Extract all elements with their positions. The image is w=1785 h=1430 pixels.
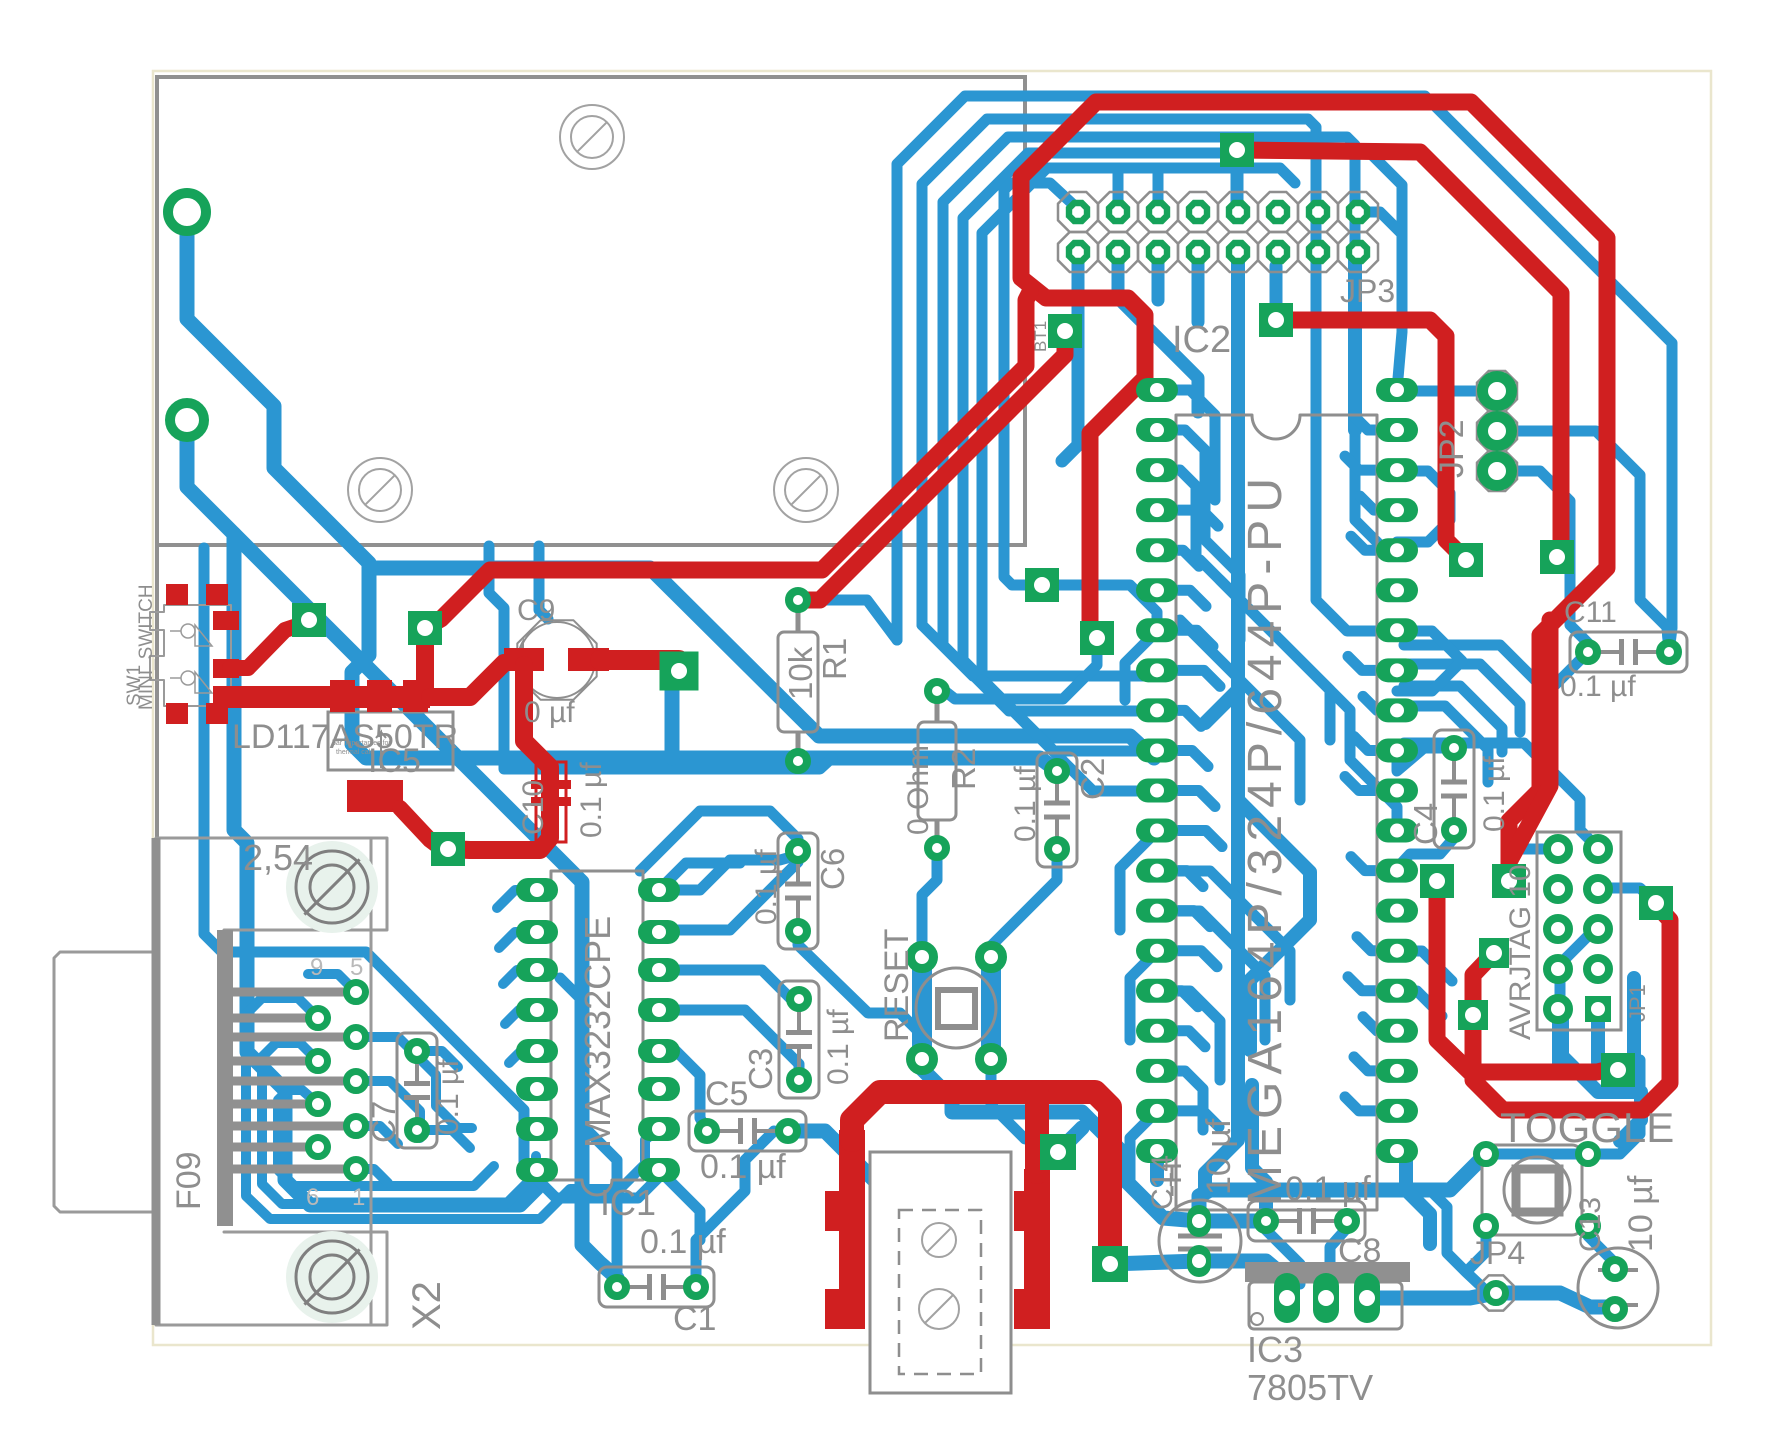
wire diag IC1 top: [640, 811, 798, 871]
wire IC2 left stub 18: [1157, 1111, 1219, 1127]
wire IC1-C6 diag1: [659, 863, 740, 890]
wire IC2-chevron2: [1397, 471, 1450, 542]
ic IC3 body: [1249, 1282, 1402, 1329]
capacitor C13 pads: [1606, 1260, 1624, 1278]
ic IC2 body: [1176, 415, 1377, 1210]
wire pad C stem: [665, 683, 680, 758]
wire IC2 int diag5: [1157, 911, 1265, 1040]
svg-text:1: 1: [352, 1184, 365, 1211]
red SW1 pad tl: [166, 584, 188, 605]
wire C11 left down: [1546, 652, 1588, 730]
wire via-585 link: [1042, 585, 1157, 631]
switch SW1 sym1: [170, 624, 212, 646]
wire IC1 pin5 stub: [509, 1051, 537, 1063]
wire JTAG row1 link: [1520, 844, 1558, 855]
red C10 bar bottom: [531, 797, 571, 806]
wire IC2 right stub 2: [1345, 456, 1397, 470]
wire bus L4: [963, 153, 1402, 660]
wire JP4 C13: [1496, 1293, 1615, 1307]
red power left tab2: [825, 1289, 855, 1329]
svg-text:0.1 µf: 0.1 µf: [432, 1059, 465, 1135]
capacitor C3 pads: [790, 990, 808, 1008]
wire horiz fork down: [1430, 1190, 1483, 1288]
wire C5 right link: [788, 1131, 895, 1232]
wire IC3 pad3 JP4: [1367, 1293, 1496, 1298]
svg-text:MAX3232CPE: MAX3232CPE: [577, 916, 618, 1148]
header JP4 outline: [1478, 1275, 1513, 1310]
wire DB9 loop A: [204, 548, 659, 1198]
svg-text:0 µf: 0 µf: [524, 696, 575, 729]
svg-text:C11: C11: [1564, 596, 1617, 629]
red trace BT1 to R1: [796, 331, 1065, 600]
red C9 pad right: [568, 648, 609, 671]
wire bus L5 tail: [982, 680, 1157, 791]
wire IC2 right stub 12: [1351, 857, 1397, 871]
red IC5 pin3: [403, 680, 428, 712]
wire TOGGLE br pad down: [1588, 1236, 1617, 1267]
wire IC2 int 3: [1157, 470, 1196, 560]
wire V539 stub: [539, 546, 548, 619]
red trace SW1 bar: [213, 686, 430, 708]
wire IC2 int 6: [1157, 991, 1220, 1080]
via pad C: [660, 652, 699, 691]
wire IC2 int diag3: [1180, 620, 1300, 800]
ic IC1 body: [551, 871, 643, 1195]
via pad P-top: [1220, 133, 1254, 167]
via power 2: [1092, 1246, 1128, 1282]
wire JP3 p2 stub: [1270, 266, 1283, 320]
svg-text:thermal calc: thermal calc: [336, 749, 374, 756]
wire JTAG diag: [1560, 929, 1595, 1000]
wire IC2 right stub 17: [1354, 1057, 1397, 1071]
red hook inner: [1437, 881, 1614, 1072]
svg-text:C10: C10: [517, 780, 550, 835]
svg-text:bar importantes for: bar importantes for: [332, 740, 391, 747]
via pad 1042-585: [1025, 568, 1059, 602]
svg-text:10 µf: 10 µf: [1200, 1118, 1238, 1195]
connector X2 ear bottom: [224, 1232, 387, 1325]
red trace branch to SW1: [425, 292, 1030, 628]
wire IC2 right stub 16: [1363, 1017, 1397, 1031]
wire DB9 pad1 tap: [308, 974, 356, 992]
connector X1 outline: [870, 1152, 1011, 1393]
wire C8 left vert: [1252, 1085, 1266, 1221]
svg-text:C1: C1: [673, 1300, 716, 1338]
via pad P2: [1259, 303, 1293, 337]
svg-text:10 µf: 10 µf: [1622, 1175, 1660, 1252]
svg-text:IC2: IC2: [1172, 319, 1231, 361]
wire JTAG loop outer: [1562, 1013, 1641, 1141]
wire bus L5: [982, 168, 1295, 680]
svg-text:0.1 µf: 0.1 µf: [700, 1148, 786, 1186]
wire bus right hB: [1404, 664, 1520, 732]
capacitor C1 pads: [608, 1278, 626, 1296]
connector X2 pads: [347, 983, 366, 1002]
wire RESET right pads: [981, 957, 1001, 1059]
wire C4 bottom link: [1397, 838, 1454, 868]
capacitor C4 outline: [1434, 730, 1474, 848]
wire IC2 left stub 5: [1157, 590, 1206, 606]
ic IC2 pads: [1136, 378, 1178, 402]
svg-text:JP2: JP2: [1433, 419, 1471, 478]
wire bus L1: [897, 96, 1672, 652]
header JP4 pad: [1487, 1284, 1506, 1303]
wire IC2 int diag1: [1200, 560, 1330, 740]
red SW1 pad bl: [166, 703, 188, 724]
wire bus right hC: [1404, 686, 1502, 752]
wire IC2 left stub 16: [1157, 1031, 1205, 1047]
wire bus L4 tail: [963, 660, 1157, 751]
wire IC2 left stub 6: [1157, 630, 1213, 646]
resistor R1 pads: [789, 591, 807, 609]
svg-text:C4: C4: [1407, 803, 1444, 845]
via V1: [168, 193, 206, 231]
wire RESET left pads: [912, 957, 932, 1059]
header AVRJTAG pads: [1547, 838, 1569, 860]
board frame (dimension, pale yellow): [153, 71, 1711, 1345]
svg-text:9: 9: [310, 954, 323, 981]
wire JP3 row2 col7: [1348, 252, 1362, 430]
svg-text:7805TV: 7805TV: [1247, 1367, 1373, 1408]
switch SW1 outline: [150, 605, 231, 706]
wire via-638 link: [937, 650, 1097, 699]
wire IC2 right stub 4: [1351, 536, 1397, 550]
svg-text:0.1 µf: 0.1 µf: [640, 1223, 726, 1261]
wire IC2 left stub 951: [1130, 951, 1157, 1040]
wire TOGGLE bl pad down: [1470, 1236, 1486, 1268]
wire C7 bottom tap: [417, 1130, 470, 1148]
wire IC2-chevron1: [1397, 631, 1462, 691]
via pad 1097-638: [1080, 621, 1114, 655]
label IC5 fineprint: [332, 740, 391, 756]
via pad J2: [1492, 864, 1526, 898]
svg-text:C14: C14: [1146, 1155, 1179, 1210]
wire IC2 left stub 8: [1157, 710, 1201, 726]
red power right bar: [1024, 1169, 1050, 1329]
capacitor C1 outline: [599, 1267, 714, 1307]
wire IC1-C3 top: [659, 970, 799, 999]
wire IC1-C5 left: [659, 1051, 707, 1131]
wire DB9 pad3 stub: [356, 1037, 472, 1128]
screw hole bottom: [286, 1231, 378, 1323]
wire JP3 row2 col5 wide: [1205, 252, 1238, 723]
wire bus L6 tail: [1004, 560, 1038, 585]
red trace outer loop with S: [1021, 102, 1607, 881]
svg-text:R2: R2: [945, 748, 982, 790]
connector X1 hole2: [938, 1308, 940, 1310]
wire RESET down link: [991, 1069, 1045, 1139]
svg-text:0 Ohm: 0 Ohm: [902, 745, 935, 835]
button TOGGLE outline: [1482, 1145, 1582, 1235]
wire IC1 pin4 stub: [505, 1010, 537, 1024]
wire IC1 pin2 stub: [499, 932, 537, 948]
wire C2 bottom to RESET: [991, 855, 1057, 957]
wire bus L2: [922, 119, 1390, 631]
wire DB9 pad5 stub: [356, 1081, 420, 1138]
capacitor C11 outline: [1570, 632, 1687, 672]
wire IC1 right pad8 down: [659, 1170, 700, 1240]
connector X2 pin bars: [217, 930, 233, 1226]
wire IC1 pin1 stub: [497, 890, 537, 908]
capacitor C13 outline: [1578, 1248, 1658, 1328]
wire JP3 p1-p2 stub: [1231, 165, 1244, 212]
red power right tab2: [1014, 1289, 1042, 1329]
wire IC2 left stub 10: [1157, 791, 1215, 807]
wire IC1 pin16 up: [659, 855, 798, 890]
wire IC2 int 2: [1157, 430, 1240, 640]
red hook outer: [1473, 905, 1670, 1110]
svg-text:JP1: JP1: [1625, 984, 1650, 1022]
svg-text:C3: C3: [742, 1048, 779, 1090]
wire JP3 row2 col1 stub: [1062, 252, 1078, 461]
wire C6 top to IC1: [659, 855, 798, 932]
red trace inner loop 1 (JP3 pad to E1): [1237, 150, 1561, 557]
wire IC2 right stub 14: [1357, 937, 1397, 951]
capacitor C6 pads: [789, 842, 807, 860]
mount hole H3: [774, 458, 838, 522]
via pad D: [431, 832, 465, 866]
wire IC2 stub 1151: [1150, 1151, 1164, 1180]
red trace IC5 tab link: [400, 808, 442, 849]
via pad J5: [1601, 1053, 1635, 1087]
wire C11 right up: [1667, 627, 1669, 652]
wire DB9 pad7 stub: [356, 1126, 398, 1144]
red SW1 pad m2: [213, 659, 239, 678]
ic IC3 pads: [1274, 1273, 1300, 1323]
wire JTAG row2 link: [1598, 888, 1656, 903]
wire C1 left up: [560, 978, 617, 1275]
resistor R2 pads: [928, 682, 946, 700]
wire IC2 int X: [1238, 800, 1310, 1050]
wire IC2 left stub 831: [1120, 831, 1157, 930]
header AVRJTAG outline: [1537, 832, 1621, 1030]
via pad E2: [1449, 543, 1483, 577]
header JP3 outline: [1058, 192, 1098, 232]
button RESET pads: [911, 946, 934, 969]
capacitor C11 pads: [1579, 643, 1597, 661]
wire IC2 left stub 4: [1157, 550, 1199, 566]
wire bus right hA: [1404, 645, 1540, 702]
wire IC2 left stub 14: [1157, 951, 1217, 967]
wire power via stub: [1058, 1128, 1082, 1152]
red trace SW1 to pad A: [230, 622, 309, 668]
wire IC2 left stub 9: [1157, 750, 1208, 766]
wire IC2 left stub 13: [1157, 911, 1210, 927]
red power loop: [852, 1092, 1110, 1264]
svg-text:RESET: RESET: [878, 929, 916, 1042]
board outline left edge: [155, 546, 159, 1325]
wire IC1-C3 bottom: [659, 1010, 799, 1080]
wire C6 bottom link: [798, 938, 922, 1059]
capacitor C14 outline: [1159, 1200, 1241, 1282]
red power left bar: [839, 1130, 865, 1329]
wire JP3 row1 col3 upstub: [1153, 172, 1164, 212]
via pad J3: [1479, 938, 1509, 968]
button TOGGLE pads: [1477, 1145, 1496, 1164]
regulator IC5 body: [328, 712, 453, 770]
svg-text:2,54: 2,54: [243, 837, 313, 878]
switch SW1 sym2: [170, 671, 212, 693]
red C10 bar top: [531, 780, 571, 789]
red IC5 pin1: [330, 680, 355, 712]
wire C4 top link: [1397, 748, 1454, 771]
red SW1 pad m1: [213, 611, 239, 630]
connector X1 dashed: [899, 1210, 981, 1374]
wire JP3 col8 stub: [1358, 212, 1402, 234]
mount hole H2: [348, 458, 412, 522]
svg-text:R1: R1: [816, 638, 853, 680]
capacitor C7 outline: [397, 1033, 437, 1148]
wire IC2 int 1: [1157, 390, 1215, 500]
wire bus right hD: [1404, 706, 1488, 782]
svg-text:C7: C7: [365, 1101, 402, 1143]
button RESET outline: [916, 968, 996, 1048]
via pad J6: [1639, 886, 1673, 920]
svg-text:IC3: IC3: [1247, 1329, 1303, 1370]
wire DB9 loop C: [262, 1043, 536, 1204]
svg-text:0.1 µf: 0.1 µf: [1560, 670, 1636, 703]
svg-text:0.1 µf: 0.1 µf: [822, 1009, 855, 1085]
via BT1 pad: [1048, 314, 1082, 348]
svg-text:X2: X2: [405, 1281, 449, 1330]
capacitor C7 pads: [408, 1042, 426, 1060]
red SW1 pad tr: [206, 584, 228, 605]
wire IC2 right stub 7: [1348, 656, 1397, 670]
board outline top module (gray rect): [157, 77, 1025, 545]
via pad B: [408, 611, 442, 645]
ic IC3 bar: [1245, 1262, 1410, 1282]
svg-text:BT1: BT1: [1031, 321, 1050, 352]
wire via1 chain: [187, 212, 1056, 770]
wire JP3 row2 col3 stub: [1152, 252, 1165, 300]
header JP3 pads: [1066, 200, 1090, 224]
wire AVRJTAG feed: [1404, 743, 1598, 848]
wire via2 branch DB9: [234, 534, 537, 1205]
screw hole top: [286, 841, 378, 933]
wire JP2 pad1 link: [1397, 386, 1497, 397]
wire IC2 right stub 3: [1360, 496, 1397, 510]
svg-text:0.1 µf: 0.1 µf: [575, 762, 608, 838]
wire via2 chain: [187, 420, 617, 1287]
resistor R1 outline: [778, 632, 818, 732]
svg-text:0.1 µf: 0.1 µf: [1478, 756, 1511, 832]
red IC5 tab: [347, 780, 403, 812]
red trace padB down: [416, 628, 434, 697]
red trace C9 left down: [448, 665, 550, 850]
red hook pad link: [1473, 953, 1494, 1015]
svg-text:C9: C9: [517, 594, 555, 627]
wire bus L2 tail: [922, 625, 1157, 676]
ic IC1 pads: [516, 878, 558, 902]
wire IC2 right stub 1: [1354, 416, 1397, 430]
header JP2 outline: [1477, 371, 1517, 411]
red trace C9 to pad C: [600, 660, 679, 671]
wire IC2 left stub 15: [1157, 991, 1198, 1007]
wire IC2 left stub 631: [1125, 631, 1157, 700]
svg-text:F09: F09: [170, 1151, 208, 1210]
connector X2 ear top: [224, 838, 387, 930]
wire IC2 left stub 7: [1157, 670, 1220, 686]
capacitor C14 pads: [1187, 1205, 1211, 1237]
capacitor C8 pads: [1257, 1212, 1275, 1230]
wire C8 diag IC3: [1266, 1230, 1300, 1284]
wire IC2 int diag4: [1157, 871, 1290, 1000]
svg-text:0.1 µf: 0.1 µf: [1285, 1170, 1371, 1208]
wire IC1 pin3 stub: [503, 970, 537, 984]
red C9 pad left: [504, 648, 544, 671]
svg-text:TOGGLE: TOGGLE: [1500, 1104, 1674, 1151]
wire IC2 left stub 1111: [1130, 1111, 1157, 1180]
svg-text:JP3: JP3: [1340, 273, 1395, 309]
red power right tab1: [1014, 1191, 1042, 1231]
wire IC2 right stub 8: [1363, 696, 1397, 710]
red trace IC5 bar to C9: [430, 663, 504, 697]
wire JTAG col1 stub: [1552, 1013, 1564, 1068]
wire IC2 right stub 9: [1354, 736, 1397, 750]
red trace inner loop 2 (JP3 pad2 to E2): [1276, 320, 1466, 560]
svg-text:6: 6: [306, 1184, 319, 1211]
wire JP2 pad3 link: [1497, 471, 1588, 652]
svg-text:0.1 µf: 0.1 µf: [1009, 766, 1042, 842]
wire IC2 left stub 3: [1157, 510, 1218, 526]
wire DB9 pad9 stub: [356, 1169, 388, 1183]
svg-text:AVRJTAG 10: AVRJTAG 10: [1504, 864, 1537, 1040]
connector X2 outline: [156, 838, 371, 1325]
capacitor C8 outline: [1248, 1201, 1365, 1241]
svg-text:C8: C8: [1338, 1232, 1381, 1270]
via pad E1: [1540, 540, 1574, 574]
capacitor C5 outline: [689, 1111, 806, 1151]
red SW1 pad br: [206, 703, 228, 724]
red IC5 pin2: [367, 680, 392, 712]
svg-text:0.1 µf: 0.1 µf: [750, 849, 783, 925]
wire TOGGLE row link: [1486, 1149, 1588, 1160]
red C10 outline: [536, 762, 566, 842]
wire JP3 row2 col4 stub: [1192, 252, 1205, 322]
wire IC2 right stub 15: [1348, 977, 1397, 991]
regulator IC5 inner: [376, 732, 386, 768]
via pad A: [292, 603, 326, 637]
capacitor C4 pads: [1445, 739, 1463, 757]
wire DB9 loop D: [278, 1090, 494, 1186]
wire bus L3: [943, 137, 1397, 645]
wire IC2 int diag2: [1220, 580, 1397, 831]
header JP2 pads: [1483, 377, 1512, 406]
wire C7 top tap: [417, 1051, 458, 1067]
via pad J1: [1420, 864, 1454, 898]
connector X1 hole1: [938, 1239, 940, 1241]
wire IC2 int 7: [1157, 1071, 1203, 1130]
wire bus L6 inner: [1004, 183, 1078, 560]
wire V489 chain: [489, 546, 832, 769]
svg-text:5: 5: [350, 954, 363, 981]
svg-text:10k: 10k: [782, 646, 819, 700]
svg-text:MEGA164P/324P/644P-PU: MEGA164P/324P/644P-PU: [1239, 471, 1292, 1205]
resistor R2 outline: [918, 722, 956, 820]
wire IC2 right int 2: [1397, 991, 1442, 1016]
wire JP3 row2 col2 stub: [1118, 252, 1198, 412]
wire IC2 left stub 11: [1157, 831, 1222, 847]
capacitor C6 outline: [778, 833, 818, 949]
svg-text:C2: C2: [1074, 758, 1111, 800]
via pad J4: [1458, 1000, 1488, 1030]
capacitor C2 outline: [1037, 753, 1077, 867]
wire DB9 loop B: [246, 998, 659, 1219]
via power 1: [1040, 1134, 1076, 1170]
wire bus L1 tail: [798, 600, 897, 640]
wire bus L3 tail: [943, 645, 1157, 711]
red power right branch: [1025, 1092, 1049, 1172]
